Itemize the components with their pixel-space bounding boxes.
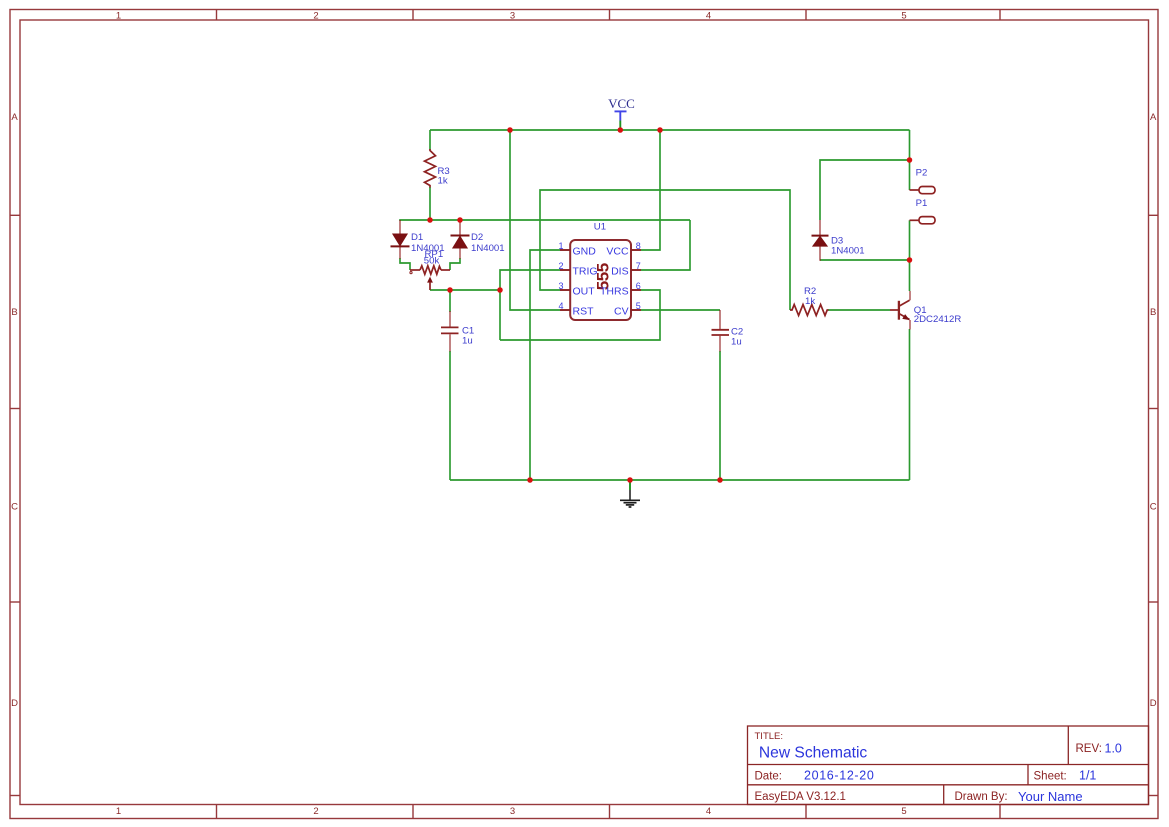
ground symbol <box>620 480 640 507</box>
svg-text:C: C <box>1150 501 1157 512</box>
svg-text:New Schematic: New Schematic <box>759 745 868 762</box>
wire D1 bottom to pot <box>400 258 410 270</box>
diode D2 <box>451 220 505 259</box>
svg-text:DIS: DIS <box>611 266 629 278</box>
connector P1 <box>910 198 936 224</box>
wire RST to VCC rail <box>510 130 560 310</box>
wire CV pin5 to C2 <box>641 309 720 311</box>
svg-text:1u: 1u <box>462 336 473 347</box>
wire D3 bottom <box>820 259 910 261</box>
svg-text:3: 3 <box>510 806 515 817</box>
svg-text:EasyEDA V3.12.1: EasyEDA V3.12.1 <box>755 791 846 803</box>
svg-text:5: 5 <box>901 11 906 22</box>
junction (450,290) <box>447 287 453 293</box>
svg-text:1: 1 <box>559 241 564 251</box>
wire TRIG to node <box>500 270 560 340</box>
junction (620,130) <box>618 127 624 133</box>
svg-text:1u: 1u <box>731 336 742 347</box>
power flag VCC <box>608 96 635 130</box>
svg-text:50k: 50k <box>424 255 440 266</box>
svg-text:RST: RST <box>573 305 595 317</box>
pin 5 CV <box>631 309 641 311</box>
svg-text:A: A <box>1150 112 1157 123</box>
capacitor C1 <box>441 311 474 352</box>
svg-text:Sheet:: Sheet: <box>1034 771 1067 783</box>
svg-text:D2: D2 <box>471 232 483 243</box>
svg-text:REV:: REV: <box>1076 743 1102 755</box>
svg-text:THRS: THRS <box>600 286 629 298</box>
wire to Q1 collector <box>909 260 911 291</box>
transistor Q1 <box>890 291 961 330</box>
wire bottom ground rail <box>450 479 910 481</box>
svg-text:1N4001: 1N4001 <box>831 245 865 256</box>
junction (500,290) <box>497 287 503 293</box>
svg-text:CV: CV <box>614 305 629 317</box>
wire R2 to Q1 base <box>828 309 890 311</box>
svg-text:8: 8 <box>636 241 641 251</box>
svg-text:1: 1 <box>116 11 121 22</box>
wire THRS to node <box>500 290 660 340</box>
wire right drop from rail <box>909 130 911 160</box>
svg-text:1: 1 <box>116 806 121 817</box>
svg-text:2: 2 <box>559 261 564 271</box>
wire R3 bottom to D1/D2 rail <box>429 187 431 220</box>
svg-text:TRIG: TRIG <box>573 266 598 278</box>
pin 1 GND <box>560 249 570 251</box>
junction (909.5,160) <box>907 157 913 163</box>
svg-text:5: 5 <box>636 301 641 311</box>
resistor R2 <box>790 286 829 316</box>
wire D1/D2 top rail <box>400 220 690 221</box>
svg-text:VCC: VCC <box>608 96 635 111</box>
op-amp U1 555 timer <box>559 222 642 321</box>
junction (430,220) <box>427 217 433 223</box>
wire OUT to R2 <box>540 190 790 310</box>
junction (660,130) <box>657 127 663 133</box>
svg-text:U1: U1 <box>594 222 606 233</box>
junction (720,480) <box>717 477 723 483</box>
wire DIS pin7 to D1/D2 rail <box>641 220 690 270</box>
wire GND pin to ground rail <box>530 250 560 480</box>
pin 6 THRS <box>631 289 641 291</box>
junction (530,480) <box>527 477 533 483</box>
wire R3 top <box>429 130 431 150</box>
svg-text:TITLE:: TITLE: <box>755 731 784 742</box>
svg-text:GND: GND <box>573 245 597 257</box>
svg-text:D: D <box>11 698 18 709</box>
svg-text:2: 2 <box>313 11 318 22</box>
connector P2 <box>910 167 936 193</box>
svg-text:B: B <box>1150 307 1156 318</box>
wire C2 bottom <box>719 351 721 480</box>
svg-text:7: 7 <box>636 261 641 271</box>
diode D3 <box>812 220 865 261</box>
svg-text:2DC2412R: 2DC2412R <box>914 314 962 325</box>
svg-text:Drawn By:: Drawn By: <box>955 791 1008 803</box>
svg-text:P1: P1 <box>916 198 928 209</box>
pin 4 RST <box>560 309 570 311</box>
svg-text:1N4001: 1N4001 <box>471 243 505 254</box>
svg-text:D1: D1 <box>411 232 423 243</box>
junction (630,480) <box>627 477 633 483</box>
wire VCC top rail <box>430 129 910 131</box>
svg-text:Your Name: Your Name <box>1018 789 1083 804</box>
svg-text:2: 2 <box>313 806 318 817</box>
pin 8 VCC <box>631 249 641 251</box>
svg-text:2016-12-20: 2016-12-20 <box>804 769 874 783</box>
svg-text:3: 3 <box>510 11 515 22</box>
svg-text:B: B <box>11 307 17 318</box>
svg-text:4: 4 <box>559 301 564 311</box>
svg-text:P2: P2 <box>916 167 928 178</box>
wire D2 bottom to pot <box>450 258 460 270</box>
wire to D3 top <box>820 160 910 220</box>
potentiometer RP1 50k <box>410 249 450 290</box>
svg-text:Date:: Date: <box>755 771 783 783</box>
svg-text:A: A <box>11 112 18 123</box>
wire VCC pin8 to rail <box>641 130 660 250</box>
wire C1 bottom <box>449 351 451 480</box>
pin 2 TRIG <box>560 269 570 271</box>
diode D1 <box>391 220 445 259</box>
svg-text:OUT: OUT <box>573 286 596 298</box>
junction (510,130) <box>507 127 513 133</box>
svg-text:1/1: 1/1 <box>1079 769 1096 783</box>
svg-text:4: 4 <box>706 11 711 22</box>
svg-text:1.0: 1.0 <box>1105 742 1122 756</box>
svg-text:1k: 1k <box>438 176 448 187</box>
pin 7 DIS <box>631 269 641 271</box>
wire Q1 emitter to ground rail <box>909 329 911 480</box>
wire to P2 <box>909 160 911 190</box>
svg-text:4: 4 <box>706 806 711 817</box>
junction (460,220) <box>457 217 463 223</box>
pin 3 OUT <box>560 289 570 291</box>
wire C1 top <box>449 290 451 312</box>
svg-text:6: 6 <box>636 281 641 291</box>
title block <box>748 726 1149 805</box>
svg-text:5: 5 <box>901 806 906 817</box>
svg-text:VCC: VCC <box>606 245 629 257</box>
junction (909.5,260) <box>907 257 913 263</box>
svg-text:1k: 1k <box>805 296 815 307</box>
svg-text:3: 3 <box>559 281 564 291</box>
wire P1 down to D3 node <box>909 220 911 260</box>
capacitor C2 <box>712 310 744 352</box>
resistor R3 <box>425 149 450 188</box>
svg-text:D: D <box>1150 698 1157 709</box>
wire pot wiper to TRIG/THRS node <box>430 289 500 291</box>
svg-text:C: C <box>11 501 18 512</box>
